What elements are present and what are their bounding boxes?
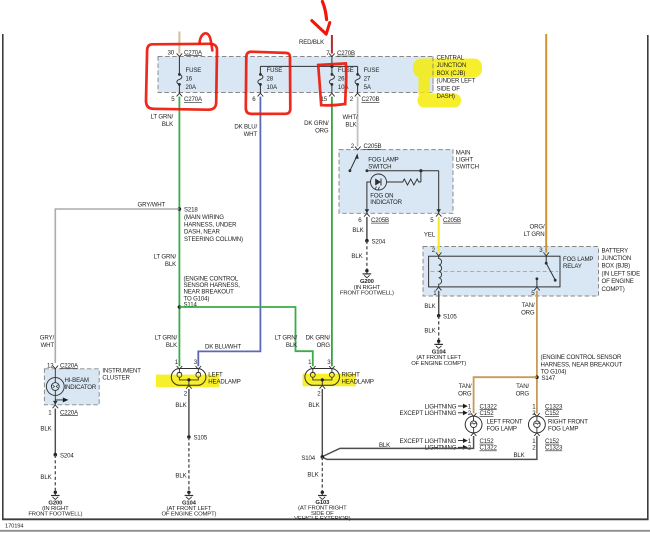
svg-text:LEFT: LEFT [208,371,223,378]
svg-text:BLK: BLK [352,227,363,234]
svg-text:16: 16 [186,76,193,83]
instrument cluster box [44,369,99,405]
svg-text:S147: S147 [542,375,556,382]
svg-text:ORG: ORG [458,391,472,398]
node S204 mid [365,238,386,245]
left headlamp E1 [171,369,240,386]
svg-text:BLK: BLK [165,261,176,268]
svg-text:FUSE: FUSE [267,67,283,74]
CJB right edge redraw [432,57,434,93]
svg-text:FRONT FOOTWELL): FRONT FOOTWELL) [28,512,82,518]
svg-text:LIGHT: LIGHT [456,157,474,164]
node S147 [535,354,623,382]
ground G103 [294,491,351,522]
wire BLK left fog ground [322,436,473,457]
note instrument cluster [102,368,141,382]
svg-text:S104: S104 [301,455,315,462]
svg-text:C270B: C270B [337,50,355,57]
left fog lamp pins bottom [400,433,498,452]
svg-text:FOG LAMP: FOG LAMP [563,256,593,263]
svg-text:SWITCH: SWITCH [456,164,479,171]
label DK GRN/ORG right headlamp [306,335,331,350]
junction in switch [419,169,422,172]
svg-text:MAIN: MAIN [456,150,471,157]
svg-text:10A: 10A [267,84,278,91]
relay pin 3 [539,247,549,256]
note BJB location [602,247,641,292]
highlight yellow CJB note [413,59,482,108]
svg-text:26: 26 [338,76,345,83]
right headlamp pins top [308,359,335,369]
svg-text:TAN/: TAN/ [459,383,472,390]
relay coil [439,256,442,287]
label DK GRN/ORG top [304,120,329,135]
svg-text:DASH, NEAR: DASH, NEAR [184,229,220,236]
svg-text:S204: S204 [60,453,74,460]
pin 5 C270A [171,93,203,103]
svg-text:JUNCTION: JUNCTION [602,255,632,262]
right fog lamp pins bottom [532,433,563,452]
svg-text:FOG LAMP: FOG LAMP [368,156,398,163]
svg-text:HEADLAMP: HEADLAMP [342,378,374,385]
svg-text:5A: 5A [364,84,372,91]
wire BLK switch pin6 to S204 [366,217,368,241]
svg-text:EXCEPT LIGHTNING: EXCEPT LIGHTNING [400,410,457,417]
pin 30 C270A [168,49,203,56]
svg-text:BLK: BLK [40,426,51,433]
svg-text:S105: S105 [194,435,208,442]
wire TAN/ORG relay pin5 to S147 and fog lamps [536,291,538,414]
svg-text:WHT: WHT [41,342,55,349]
annotation red circle around fuse 28 [246,52,291,114]
note CJB location [437,55,476,101]
svg-text:GRY/: GRY/ [40,335,55,342]
left headlamp pin 2 [184,386,192,398]
svg-text:ORG: ORG [315,128,329,135]
relay switch contacts [536,256,557,287]
svg-text:BLK: BLK [175,473,186,480]
svg-text:ORG: ORG [516,391,530,398]
wire RED/BLK into pin 7 [331,35,333,54]
svg-text:C1322: C1322 [480,445,498,452]
wire GRY/WHT S218 to cluster [55,209,179,363]
annotation red circle around fuse 26 [318,63,346,105]
svg-text:BATTERY: BATTERY [602,247,629,254]
svg-text:HEADLAMP: HEADLAMP [208,378,240,385]
wire BLK relay pin1 to S105 [438,291,440,316]
label LT GRN/BLK lower [155,335,178,350]
node S105 left [187,435,208,442]
cluster pin 12 C220A [47,362,79,369]
svg-text:LT GRN/: LT GRN/ [154,254,177,261]
svg-text:S218: S218 [184,207,198,214]
svg-text:RIGHT FRONT: RIGHT FRONT [548,418,588,425]
node S114 [178,275,241,309]
svg-text:(IN LEFT SIDE: (IN LEFT SIDE [602,270,641,277]
pin 15 CJB [321,93,335,103]
svg-text:OF ENGINE COMPT): OF ENGINE COMPT) [161,512,216,518]
svg-text:FRONT FOOTWELL): FRONT FOOTWELL) [340,291,394,297]
wire LT GRN/BLK fuse16 to S218 S114 left headlamp [178,97,180,367]
svg-text:C220A: C220A [60,362,79,369]
svg-text:C205B: C205B [371,217,389,224]
wire BLK cluster to S204 [54,409,56,455]
svg-text:LT GRN/: LT GRN/ [151,114,174,121]
right front fog lamp [529,416,589,433]
svg-text:INDICATOR: INDICATOR [370,199,402,206]
svg-text:HARNESS, NEAR BREAKOUT: HARNESS, NEAR BREAKOUT [541,361,623,368]
svg-text:SWITCH: SWITCH [368,163,391,170]
svg-text:BLK: BLK [351,253,362,260]
pin 2 C270B [350,93,380,103]
node S104 [301,455,324,462]
fuse F16 20A [177,57,201,93]
wire DK BLU/WHT fuse28 to left headlamp pin3 [198,97,260,367]
svg-text:CENTRAL: CENTRAL [437,55,465,62]
svg-text:C220A: C220A [60,409,79,416]
annotation red arrow [312,2,330,35]
svg-text:S204: S204 [372,238,386,245]
svg-text:C270A: C270A [184,96,203,103]
svg-text:12: 12 [47,362,54,369]
left fog lamp pins top [400,403,498,417]
right headlamp pin 2 [317,386,325,398]
bus from pin7 to fuses [260,57,357,69]
svg-text:10A: 10A [338,84,349,91]
svg-text:(UNDER LEFT: (UNDER LEFT [437,78,476,85]
svg-text:WHT/: WHT/ [343,114,358,121]
pin 7 C270B [326,50,355,57]
relay pin 1 [433,287,441,297]
svg-text:STEERING COLUMN): STEERING COLUMN) [184,236,243,243]
label DK BLU/WHT top [234,124,257,139]
svg-text:RIGHT: RIGHT [342,371,361,378]
wire BLK dashed to G104 mid [438,316,440,340]
svg-text:JUNCTION: JUNCTION [437,62,467,69]
wire BLK right fog ground [322,436,537,459]
svg-text:BLK: BLK [308,402,319,409]
svg-text:TAN/: TAN/ [516,383,529,390]
right headlamp E2 [305,369,374,386]
svg-text:FOG LAMP: FOG LAMP [487,425,517,432]
svg-text:BLK: BLK [307,472,318,479]
annotation red circle around fuse 16 [146,33,217,109]
svg-text:FUSE: FUSE [186,67,202,74]
svg-text:DK GRN/: DK GRN/ [304,120,329,127]
label LT GRN/BLK mid [154,254,177,269]
svg-text:FUSE: FUSE [364,67,380,74]
svg-text:30: 30 [168,49,175,56]
svg-text:ORG: ORG [317,342,331,349]
wire BLK right headlamp to S104 [321,389,323,457]
svg-text:COMPT): COMPT) [602,286,625,293]
svg-text:S105: S105 [443,314,457,321]
svg-text:C1323: C1323 [545,445,563,452]
svg-text:BOX (BJB): BOX (BJB) [602,263,631,270]
svg-text:C205B: C205B [364,143,382,150]
svg-text:FOG LAMP: FOG LAMP [548,425,578,432]
svg-text:LT GRN/: LT GRN/ [155,335,178,342]
svg-text:BOX (CJB): BOX (CJB) [437,70,466,77]
svg-text:LT GRN: LT GRN [524,231,545,238]
resistor in switch [387,171,421,185]
svg-text:DK GRN/: DK GRN/ [306,335,331,342]
svg-text:OF ENGINE: OF ENGINE [602,278,634,285]
ground G104 mid [411,340,466,367]
svg-text:INSTRUMENT: INSTRUMENT [102,368,141,375]
svg-text:ORG: ORG [521,310,535,317]
svg-text:BLK: BLK [166,342,177,349]
relay pin 2 [432,247,442,256]
wire tan stub above pin 30 [178,32,180,54]
svg-text:BLK: BLK [379,442,390,449]
note main light switch [456,150,479,171]
node S218 [178,207,243,243]
svg-text:LT GRN/: LT GRN/ [275,335,298,342]
svg-text:BLK: BLK [424,303,435,310]
svg-text:BLK: BLK [162,121,173,128]
svg-text:BLK: BLK [40,474,51,481]
left front fog lamp [465,416,523,433]
hi-beam indicator [46,369,96,396]
svg-text:DK BLU/WHT: DK BLU/WHT [205,343,242,350]
svg-text:SIDE OF: SIDE OF [437,85,461,92]
svg-text:ORG/: ORG/ [530,224,545,231]
fog lamp relay box [429,256,594,287]
fuse F26 10A [329,66,353,93]
pin 6 C205B [358,209,389,224]
svg-text:HARNESS, UNDER: HARNESS, UNDER [184,221,237,228]
svg-text:(ENGINE CONTROL SENSOR: (ENGINE CONTROL SENSOR [541,354,623,361]
wire BLK dashed to G200 bottom [54,455,56,491]
wire switch to pin5 [438,171,440,214]
label WHT/BLK [343,114,358,129]
central junction box CJB [158,57,433,93]
svg-text:BLK: BLK [286,342,297,349]
ground G200 mid [340,269,394,297]
highlight yellow right headlamp [303,374,357,387]
svg-text:C205B: C205B [443,217,461,224]
wire WHT/BLK fuse27 to switch pin2 [357,97,359,147]
cluster pin 1 C220A [48,401,79,416]
wire DK GRN/ORG fuse26 to right headlamp pin3 [331,97,333,367]
svg-text:20A: 20A [186,84,197,91]
label LT GRN/BLK right headlamp [275,335,298,350]
pin 5 C205B [430,209,461,224]
wire BLK left headlamp to S105 [188,389,190,437]
fuse F28 10A [258,66,282,93]
svg-text:BLK: BLK [345,122,356,129]
svg-text:RELAY: RELAY [563,263,582,270]
pin 2 C205B switch [351,143,382,150]
svg-text:C152: C152 [480,410,495,417]
main light switch box [339,150,453,214]
svg-text:LEFT FRONT: LEFT FRONT [487,418,523,425]
svg-text:TO G104): TO G104) [541,369,567,376]
svg-text:C270B: C270B [362,96,380,103]
right fog lamp pins top [532,403,563,417]
left headlamp pins top [175,359,201,369]
wire BLK dashed to G103 [321,457,323,491]
fog lamp switch SW1 [349,153,439,172]
svg-text:BLK: BLK [175,402,186,409]
label LT GRN/BLK top [151,114,174,129]
label TAN/ORG left fog [458,383,472,398]
svg-text:BLK: BLK [514,452,525,459]
svg-text:C270A: C270A [184,49,203,56]
label TAN/ORG right fog [516,383,530,398]
svg-text:OF ENGINE COMPT): OF ENGINE COMPT) [411,361,466,367]
wire BLK dashed to G200 mid [366,241,368,269]
wire YEL switch pin5 to relay pin2 [438,217,440,253]
svg-text:170194: 170194 [5,524,24,530]
pin 6 CJB [252,93,263,103]
svg-text:RED/BLK: RED/BLK [299,39,324,46]
ground G104 bottom [161,491,216,518]
label GRY/WHT vertical [40,335,55,350]
svg-text:CLUSTER: CLUSTER [102,375,130,382]
wire LT GRN/BLK branch S114 to right headlamp pin1 [179,307,312,366]
ground G200 bottom [28,491,82,518]
svg-text:BLK: BLK [424,328,435,335]
svg-text:WHT: WHT [244,131,258,138]
fog on indicator lamp [370,174,402,206]
svg-text:27: 27 [364,76,371,83]
wire indicator to pin6 [367,182,371,213]
wire BLK dashed to G104 bottom [188,437,190,491]
node S105 relay [437,314,457,321]
svg-text:DASH): DASH) [437,93,455,100]
svg-text:YEL: YEL [424,232,436,239]
cluster internal wire and branch arrow [55,395,67,404]
svg-text:C152: C152 [545,410,560,417]
wire TAN/ORG branch to left fog lamp [474,377,537,413]
svg-text:GRY/WHT: GRY/WHT [138,202,166,209]
highlight yellow left headlamp [156,375,220,388]
svg-text:INDICATOR: INDICATOR [65,384,97,391]
svg-text:HI-BEAM: HI-BEAM [65,377,89,384]
relay pin 5 [531,287,539,297]
svg-text:TAN/: TAN/ [522,302,535,309]
fuse F27 5A [355,66,379,93]
svg-text:(MAIN WIRING: (MAIN WIRING [184,214,224,221]
svg-text:DK BLU/: DK BLU/ [234,124,257,131]
svg-text:28: 28 [267,76,274,83]
battery junction box BJB [423,247,599,297]
wire ORG/LT GRN to relay pin3 [545,34,547,253]
node S204 left [54,453,75,460]
